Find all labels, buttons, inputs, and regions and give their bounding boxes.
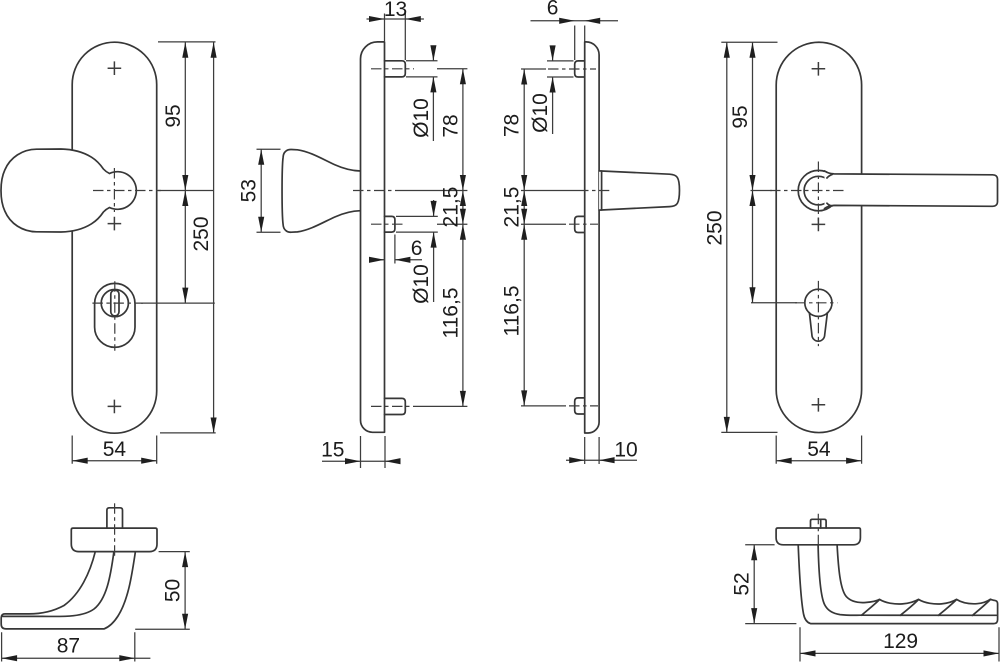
grip inner edge line [3, 552, 114, 617]
svg-text:Ø10: Ø10 [529, 93, 552, 133]
extension lines bolt dia [547, 61, 574, 77]
svg-text:10: 10 [614, 439, 637, 462]
lower screw mark [108, 217, 122, 231]
svg-text:21,5: 21,5 [501, 187, 524, 228]
extension lines 13 [385, 14, 406, 61]
lower screw mark [812, 218, 826, 232]
extension lines 129 [800, 627, 999, 661]
svg-text:21,5: 21,5 [439, 187, 462, 228]
bottom extension line [721, 431, 777, 433]
width extension lines [776, 436, 861, 464]
svg-text:15: 15 [321, 439, 344, 462]
bottom bolt centre line [569, 405, 598, 407]
cylinder circle [101, 290, 128, 317]
dimension line 54 [72, 460, 157, 462]
extension lines 52 [745, 545, 796, 624]
svg-text:53: 53 [238, 179, 261, 202]
dimension line 95 and knob-to-cylinder [184, 42, 186, 303]
dimension line 13 [367, 18, 424, 20]
svg-text:129: 129 [883, 630, 918, 653]
extension line at bottom bolt centre [414, 405, 468, 407]
middle bolt centre line [371, 223, 405, 225]
lever rose inner circle [804, 176, 833, 205]
svg-text:250: 250 [703, 210, 726, 245]
flange cap [776, 528, 860, 545]
top extension line [721, 41, 777, 43]
extension line at middle bolt centre [521, 223, 566, 225]
spindle pin [811, 519, 827, 528]
extension line at bottom bolt centre [521, 405, 566, 407]
plate centre line [578, 190, 609, 192]
bottom fixing bolt [385, 398, 406, 414]
extension lines 50 [135, 552, 190, 630]
bottom screw mark [812, 398, 826, 412]
svg-text:78: 78 [439, 114, 462, 137]
extension lines top bolt dia [406, 61, 438, 77]
svg-text:6: 6 [547, 0, 559, 19]
scallop groove line 4 [972, 599, 990, 615]
dimension line dia10 [552, 46, 554, 135]
dimension line 53 [260, 149, 262, 232]
lever bar fill [825, 171, 998, 209]
svg-text:116,5: 116,5 [439, 288, 462, 339]
cylinder centre line vertical [817, 281, 819, 346]
spindle pin [107, 508, 123, 528]
top fixing bolt [575, 61, 585, 77]
bottom extension line [160, 432, 216, 434]
cylinder keyway [809, 313, 827, 342]
dimension line 50 [184, 552, 186, 630]
cylinder oval [95, 283, 135, 347]
outside backplate, side profile [585, 42, 599, 433]
inside backplate, side profile [361, 42, 385, 432]
dimension line dia10 top [432, 46, 434, 142]
scallop groove line 2 [900, 600, 918, 616]
svg-text:13: 13 [384, 0, 407, 21]
extension line at middle bolt centre [437, 223, 467, 225]
dimension line 78 21,5 116,5 [462, 69, 464, 407]
dimension line 250 [726, 42, 728, 432]
svg-text:95: 95 [729, 105, 752, 128]
extension line 78 at bolt centre [521, 68, 546, 70]
lever rose outer circle [798, 170, 838, 210]
dimension line 129 [800, 652, 999, 654]
dimension line 6 [369, 259, 422, 261]
dimension line 78 21,5 116,5 [523, 69, 525, 406]
extension lines middle bolt dia [396, 216, 438, 232]
cylinder circle [805, 289, 832, 316]
lever neck stub [599, 171, 679, 210]
dimension line 10 [566, 459, 637, 461]
dimension line 95 and rose-to-cylinder [752, 42, 754, 303]
top bolt centre line [548, 68, 596, 70]
svg-text:54: 54 [807, 438, 831, 461]
extension line at plate centre [521, 190, 578, 192]
knob centre line horizontal [93, 190, 161, 192]
knob handle side view, grip outline [1, 552, 135, 629]
dimension line 15 [322, 460, 399, 462]
extension line at plate centre [400, 190, 467, 192]
extension lines 53 [257, 149, 281, 232]
centre line [817, 514, 819, 550]
dimension line 52 [753, 545, 755, 624]
dimension line 87 [2, 657, 151, 659]
lever handle top edge with finger scallops [837, 545, 994, 604]
dimension line dia10 middle [433, 200, 435, 302]
extension line 6 [394, 235, 396, 264]
cylinder centre line horizontal [795, 302, 837, 304]
svg-text:78: 78 [501, 114, 524, 137]
rose inner fillet bottom [827, 203, 833, 206]
svg-text:6: 6 [411, 237, 423, 260]
rose centre line horizontal [770, 190, 844, 192]
rose inner fillet top [827, 174, 833, 178]
middle fixing bolt [575, 216, 585, 232]
cylinder centre line vertical [114, 281, 116, 351]
centre line [114, 503, 116, 557]
plate centre line [353, 190, 400, 192]
extension lines 10 [585, 437, 599, 464]
dimension line 250 [213, 42, 215, 433]
bottom screw mark [108, 400, 122, 414]
dimension line 54 [776, 460, 861, 462]
middle bolt centre line [569, 223, 598, 225]
extension lines 87 [2, 632, 135, 661]
knob centre line vertical [113, 168, 115, 212]
svg-text:95: 95 [162, 104, 185, 127]
outside backplate, front view [776, 42, 861, 432]
svg-text:Ø10: Ø10 [410, 98, 433, 138]
spindle pin step line [820, 519, 822, 528]
inside backplate, front view [72, 42, 157, 433]
svg-text:250: 250 [190, 216, 213, 251]
svg-text:87: 87 [57, 635, 80, 658]
top bolt centre line [371, 68, 414, 70]
top fixing bolt [385, 61, 406, 77]
bottom fixing bolt [575, 398, 585, 414]
svg-text:54: 54 [103, 438, 127, 461]
svg-text:50: 50 [162, 579, 185, 602]
scallop groove line 3 [938, 600, 956, 616]
extension lines 15 [361, 436, 386, 468]
top screw mark [108, 61, 122, 75]
scallop groove line 1 [862, 600, 880, 616]
svg-text:52: 52 [731, 572, 754, 595]
svg-text:116,5: 116,5 [501, 286, 524, 337]
cylinder centre line horizontal [92, 302, 143, 304]
width extension lines [72, 436, 157, 464]
dimension line 6 [531, 20, 619, 22]
top extension line [158, 41, 216, 43]
lever handle side view, neck and underside [798, 545, 997, 624]
knob, front view [1, 149, 136, 232]
flange cap [71, 528, 157, 552]
lever neck fillet line [601, 171, 603, 210]
extension lines 6 [575, 26, 585, 61]
rose centre line vertical [817, 162, 819, 224]
extension line 78 at bolt centre [437, 68, 467, 70]
top screw mark [812, 62, 826, 76]
knob, side profile [282, 149, 360, 232]
middle fixing bolt [385, 216, 395, 232]
keyway slot [111, 290, 119, 316]
lever bar outline [825, 171, 998, 209]
grip centre curve and edge band [818, 545, 996, 616]
svg-text:Ø10: Ø10 [410, 264, 433, 304]
bottom bolt centre line [371, 405, 414, 407]
